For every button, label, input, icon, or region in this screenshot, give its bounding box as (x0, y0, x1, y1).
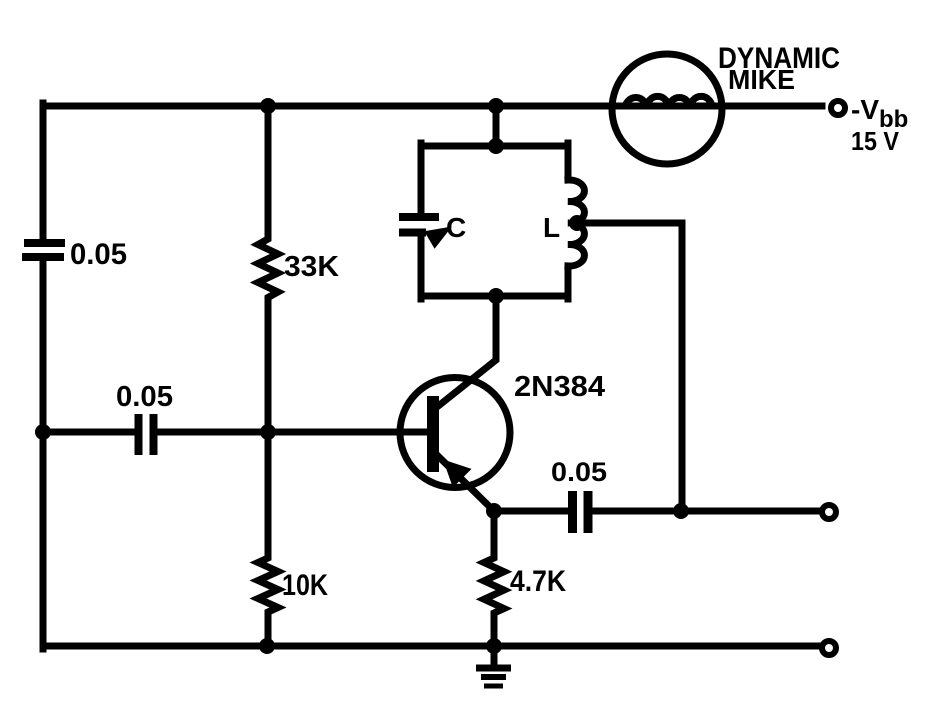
wire emitter row right to output (593, 508, 822, 515)
ground symbol (476, 668, 511, 686)
svg-text:C: C (446, 212, 466, 243)
node ground (486, 638, 502, 654)
transistor Q1 circle (400, 378, 510, 488)
wire top rail (43, 103, 822, 110)
terminal -Vbb (831, 101, 845, 115)
node top 33K (260, 98, 276, 114)
microphone inductor arcs (625, 96, 712, 109)
wire left rail (40, 103, 47, 649)
wire ground stub (491, 646, 498, 667)
node left input (35, 424, 51, 440)
svg-text:15 V: 15 V (851, 126, 900, 156)
svg-text:0.05: 0.05 (70, 238, 127, 271)
wire base (268, 429, 429, 436)
capacitor 0.05 output plates (573, 491, 589, 533)
node tank top (488, 138, 504, 154)
wire input row left (43, 429, 133, 436)
capacitor C tank bottom plate (399, 229, 426, 237)
terminal output bottom (822, 641, 836, 655)
microphone coil circle (612, 54, 722, 164)
wire bottom rail (43, 643, 822, 650)
svg-text:MIKE: MIKE (728, 64, 795, 95)
node output (673, 503, 689, 519)
wire L tap horizontal (577, 220, 682, 227)
capacitor 0.05 left top plate (24, 239, 65, 247)
svg-text:4.7K: 4.7K (510, 565, 566, 598)
wire tank stub (493, 106, 500, 149)
svg-text:33K: 33K (284, 251, 339, 283)
node L tap (569, 215, 585, 231)
node emitter (486, 503, 502, 519)
transistor Q1 emitter arrow (443, 460, 472, 488)
capacitor C tank top plate (399, 213, 439, 221)
svg-text:0.05: 0.05 (116, 381, 173, 413)
wire input row right (159, 429, 268, 436)
node tank bottom (488, 288, 504, 304)
wire emitter row left (494, 508, 566, 515)
wire L tap vertical (679, 223, 686, 511)
transistor Q1 base bar (427, 396, 439, 472)
svg-text:-V: -V (851, 94, 879, 125)
capacitor 0.05 input plates (139, 414, 154, 455)
inductor L arcs (568, 180, 584, 266)
wire emitter column with resistor 4.7K (484, 511, 504, 646)
svg-text:10K: 10K (282, 569, 328, 602)
node bottom 10K (259, 638, 275, 654)
capacitor 0.05 left bottom plate (22, 253, 64, 261)
wire collector (437, 295, 496, 407)
wire left cap gap masks (39, 247, 47, 253)
node base (260, 424, 276, 440)
terminal output top (822, 505, 836, 519)
svg-text:0.05: 0.05 (551, 457, 607, 487)
svg-text:L: L (543, 212, 560, 243)
wire emitter diagonal (439, 457, 495, 512)
wire bias column with resistors (258, 106, 278, 646)
node top tank (488, 98, 504, 114)
capacitor C tank arrow (424, 227, 452, 249)
svg-text:2N384: 2N384 (514, 371, 605, 403)
wire tank rectangle (421, 143, 568, 299)
